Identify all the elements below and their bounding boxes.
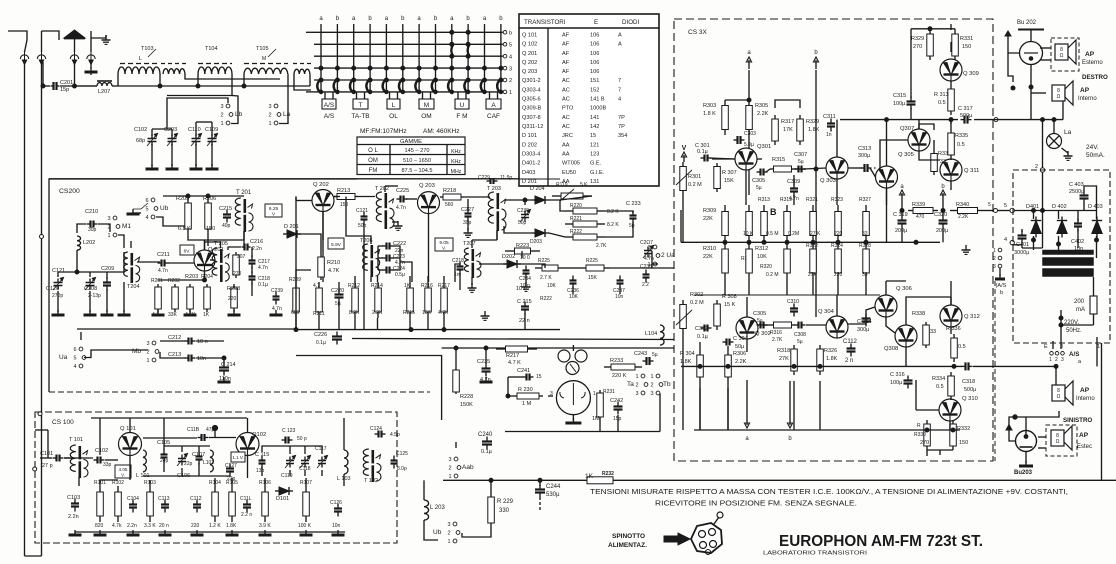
wire bu202 down bbox=[1030, 65, 1032, 120]
wire t205 top bbox=[205, 242, 221, 248]
svg-text:TRANSISTORI: TRANSISTORI bbox=[524, 19, 566, 26]
svg-text:3: 3 bbox=[1061, 357, 1064, 363]
wire bottom rails bbox=[25, 555, 42, 557]
plug connector P1 bbox=[20, 51, 28, 65]
capacitor C113 bbox=[161, 500, 169, 513]
svg-text:a: a bbox=[417, 16, 421, 22]
svg-text:3: 3 bbox=[993, 264, 996, 270]
wire output rail bbox=[840, 119, 958, 121]
svg-text:Q 102: Q 102 bbox=[522, 42, 537, 48]
svg-text:27K: 27K bbox=[779, 356, 789, 362]
svg-text:2.2 n: 2.2 n bbox=[241, 512, 252, 518]
svg-text:Aab: Aab bbox=[462, 464, 474, 471]
svg-text:1: 1 bbox=[650, 374, 653, 380]
capacitor C123 bbox=[282, 437, 293, 444]
svg-text:OL: OL bbox=[389, 113, 398, 120]
resistor R331 150 bbox=[952, 30, 959, 60]
svg-text:Q 310: Q 310 bbox=[962, 396, 978, 402]
transformer T204 oscillator coil bbox=[124, 252, 140, 283]
svg-text:R222: R222 bbox=[540, 296, 552, 302]
wire supply top cs3x bbox=[748, 135, 750, 148]
switch Mb bbox=[146, 341, 158, 364]
svg-text:C2Ω7: C2Ω7 bbox=[640, 240, 653, 246]
svg-text:AF: AF bbox=[562, 69, 570, 75]
wire r218 t203 bbox=[464, 196, 490, 198]
svg-text:G.E.: G.E. bbox=[590, 161, 602, 167]
svg-text:C311: C311 bbox=[823, 114, 836, 120]
wire bottom long bbox=[443, 479, 560, 481]
diode D201 AM det bbox=[283, 230, 301, 238]
ground symbol top bbox=[102, 35, 111, 44]
wire c402 bbox=[1077, 211, 1079, 221]
resistor R316 2.7K bbox=[770, 322, 795, 328]
svg-text:1.8 K: 1.8 K bbox=[703, 111, 716, 117]
capacitor C212 bbox=[185, 338, 196, 345]
input V left bbox=[681, 152, 686, 162]
svg-text:AC: AC bbox=[562, 78, 570, 84]
wire M1 bbox=[118, 235, 124, 248]
svg-text:510 – 1650: 510 – 1650 bbox=[403, 158, 431, 164]
svg-text:R 230: R 230 bbox=[518, 387, 533, 393]
svg-text:R: R bbox=[917, 423, 921, 429]
capacitor C306 5u bbox=[757, 322, 768, 329]
svg-text:22K: 22K bbox=[703, 216, 713, 222]
capacitor C304 50u bbox=[723, 339, 734, 346]
capacitor C308 5u bbox=[795, 322, 806, 329]
ground stub CS100 x165 bbox=[159, 530, 172, 535]
plug connector P2 bbox=[37, 51, 45, 65]
inductor L202 bbox=[77, 236, 81, 250]
svg-text:207: 207 bbox=[237, 254, 246, 260]
svg-text:T207: T207 bbox=[463, 241, 476, 247]
wire c101 bbox=[40, 457, 52, 459]
wire q310 up bbox=[949, 398, 951, 400]
svg-text:2.2K: 2.2K bbox=[372, 310, 383, 316]
wire coil taps bbox=[159, 74, 161, 86]
ground stub CS100 x265 bbox=[259, 530, 272, 535]
wire bu202 hook bbox=[1008, 53, 1013, 82]
svg-text:7P: 7P bbox=[618, 124, 625, 130]
switch Ua bottom bbox=[73, 347, 85, 370]
resistor R201 bbox=[155, 284, 162, 312]
svg-text:T 202: T 202 bbox=[375, 186, 389, 192]
svg-text:4.7k: 4.7k bbox=[112, 523, 122, 529]
resistor R335 0.5 bbox=[948, 128, 955, 160]
wire psu feed bbox=[998, 210, 1011, 212]
svg-text:C226: C226 bbox=[314, 332, 327, 338]
svg-text:220: 220 bbox=[834, 272, 843, 278]
svg-text:CS 100: CS 100 bbox=[52, 419, 74, 426]
svg-text:Q 312: Q 312 bbox=[964, 314, 980, 320]
svg-text:AC: AC bbox=[562, 124, 570, 130]
svg-text:1: 1 bbox=[1049, 357, 1052, 363]
svg-text:D303-4: D303-4 bbox=[522, 152, 540, 158]
svg-text:1K: 1K bbox=[585, 473, 594, 480]
svg-text:1.8K: 1.8K bbox=[680, 359, 692, 365]
wire CS100 mid bbox=[64, 457, 93, 459]
svg-text:R312: R312 bbox=[755, 246, 768, 252]
svg-text:1.8K: 1.8K bbox=[226, 523, 237, 529]
svg-text:a: a bbox=[385, 16, 389, 22]
svg-text:0.5: 0.5 bbox=[938, 100, 946, 106]
speaker AP interno sinistro bbox=[1052, 381, 1073, 405]
svg-text:R208: R208 bbox=[227, 286, 240, 292]
node 4 bbox=[1010, 240, 1014, 244]
svg-text:150: 150 bbox=[959, 440, 968, 446]
svg-text:Bu 202: Bu 202 bbox=[1017, 20, 1037, 26]
capacitor C222 bbox=[383, 243, 394, 250]
resistor R328 33 bbox=[863, 242, 870, 280]
resistor R220 bbox=[565, 208, 605, 214]
wire c203 bbox=[171, 129, 173, 136]
wire matrix feed bbox=[167, 98, 228, 129]
svg-text:C102: C102 bbox=[134, 127, 147, 133]
wire c313 q305 b bbox=[870, 168, 876, 177]
svg-text:152: 152 bbox=[590, 87, 599, 93]
wire rail119 node circle bbox=[994, 118, 998, 122]
svg-text:15K: 15K bbox=[724, 178, 734, 184]
svg-text:123: 123 bbox=[590, 152, 599, 158]
wire r340 out bbox=[985, 210, 993, 212]
resistor R101 bbox=[97, 486, 104, 522]
svg-text:R218: R218 bbox=[443, 188, 456, 194]
inductor L203 bbox=[424, 500, 429, 520]
svg-text:L 203: L 203 bbox=[430, 505, 445, 511]
svg-text:C308: C308 bbox=[794, 332, 806, 338]
capacitor C238 bbox=[643, 270, 650, 283]
svg-text:4: 4 bbox=[145, 215, 148, 221]
wire r206 bottom bbox=[207, 236, 209, 246]
capacitor C120 variable bbox=[53, 278, 64, 291]
fuse 200mA bbox=[1090, 296, 1097, 314]
ground CS3X mid bbox=[962, 245, 971, 254]
wire c315 bbox=[910, 29, 912, 98]
svg-text:L202: L202 bbox=[83, 240, 95, 246]
resistor R212x bbox=[293, 282, 300, 318]
svg-text:R334: R334 bbox=[932, 376, 945, 382]
resistor R308 15K bbox=[714, 300, 721, 330]
svg-text:2.2K: 2.2K bbox=[958, 214, 969, 220]
wire c244 bbox=[539, 480, 541, 486]
svg-text:R328: R328 bbox=[859, 243, 871, 249]
svg-text:3.9 K: 3.9 K bbox=[259, 523, 271, 529]
resistor R217 47K bbox=[496, 346, 537, 352]
svg-text:11.5p: 11.5p bbox=[500, 175, 512, 181]
wire c120 top link bbox=[58, 271, 77, 273]
transistor Q311 bbox=[940, 159, 962, 181]
resistor R302 0.2M pot bbox=[680, 300, 687, 333]
wire r229 bbox=[490, 480, 492, 490]
inductor L104 bbox=[660, 325, 664, 345]
wire socket top bbox=[572, 345, 574, 351]
svg-text:C126: C126 bbox=[330, 500, 342, 506]
svg-text:15: 15 bbox=[536, 374, 542, 380]
wire c109 bbox=[211, 122, 213, 136]
transistor Q309 bbox=[940, 59, 962, 81]
resistor R204 bbox=[204, 284, 211, 312]
resistor R102 bbox=[115, 486, 122, 522]
wire c209 top bbox=[77, 271, 107, 273]
svg-text:5µ: 5µ bbox=[756, 185, 762, 191]
wire cs3x lower drops bbox=[699, 388, 701, 430]
capacitor C218 bbox=[249, 272, 256, 285]
svg-text:33p: 33p bbox=[103, 462, 112, 468]
svg-text:R221: R221 bbox=[570, 216, 582, 222]
svg-text:10n: 10n bbox=[332, 523, 341, 529]
wire bu203 top2 bbox=[1025, 417, 1027, 424]
svg-text:2.7K: 2.7K bbox=[772, 337, 783, 343]
svg-text:C125: C125 bbox=[396, 451, 408, 457]
svg-text:15K: 15K bbox=[588, 275, 598, 281]
wire t207 top bbox=[471, 240, 473, 248]
input a upper bbox=[746, 57, 751, 69]
svg-text:24V.: 24V. bbox=[1086, 144, 1099, 151]
svg-text:2: 2 bbox=[635, 383, 638, 389]
svg-text:C209: C209 bbox=[101, 266, 114, 272]
svg-text:DESTRO: DESTRO bbox=[1082, 74, 1108, 81]
svg-text:A: A bbox=[618, 42, 622, 48]
resistor R339 470 bbox=[908, 208, 938, 214]
svg-text:Q301-2: Q301-2 bbox=[522, 78, 541, 84]
wire transformer taps bbox=[1096, 250, 1098, 258]
capacitor C210 series bbox=[87, 221, 98, 228]
svg-text:1K: 1K bbox=[203, 312, 210, 318]
svg-text:R339: R339 bbox=[912, 202, 925, 208]
svg-text:CS200: CS200 bbox=[59, 188, 80, 195]
svg-text:3: 3 bbox=[268, 104, 271, 110]
svg-text:27 K: 27 K bbox=[810, 231, 821, 237]
svg-text:8.2K: 8.2K bbox=[349, 310, 360, 316]
svg-text:2: 2 bbox=[447, 531, 450, 537]
svg-text:V.: V. bbox=[442, 246, 446, 251]
wire out rail 2 bbox=[973, 365, 1056, 367]
svg-text:8.0p: 8.0p bbox=[397, 466, 407, 472]
wire main supply rail y178 bbox=[49, 178, 519, 180]
svg-text:R233: R233 bbox=[610, 358, 623, 364]
wire r317 r329 tops bbox=[775, 100, 800, 108]
svg-text:1: 1 bbox=[635, 374, 638, 380]
transistor Q202 IF amp bbox=[312, 190, 334, 212]
svg-text:C121: C121 bbox=[356, 208, 368, 214]
svg-text:C211: C211 bbox=[157, 252, 170, 258]
wire T201 gnd bbox=[243, 231, 245, 240]
wire c212 c213 right bbox=[196, 340, 224, 342]
svg-text:R313: R313 bbox=[758, 197, 770, 203]
svg-text:SINISTRO: SINISTRO bbox=[1063, 417, 1092, 424]
svg-text:R324: R324 bbox=[831, 243, 843, 249]
svg-text:R 304: R 304 bbox=[680, 351, 695, 357]
svg-text:4.7K: 4.7K bbox=[438, 310, 449, 316]
wire t203 sec down bbox=[496, 230, 498, 240]
resistor R323 220 bbox=[835, 205, 842, 242]
wire psu 220v bbox=[1060, 310, 1062, 322]
wire lower q302 q304 bbox=[758, 324, 770, 326]
svg-text:C302: C302 bbox=[695, 326, 708, 332]
svg-text:2.2n: 2.2n bbox=[127, 523, 137, 529]
svg-text:1.1 V.: 1.1 V. bbox=[232, 455, 243, 460]
capacitor C243 5u bbox=[643, 357, 654, 365]
svg-text:Ta: Ta bbox=[627, 381, 634, 388]
wire rail 1 top bbox=[25, 40, 28, 52]
wire cs100 t101 bbox=[78, 477, 80, 486]
transformer T206 bbox=[363, 244, 380, 277]
resistor R309 22K bbox=[722, 205, 729, 242]
svg-text:7: 7 bbox=[618, 87, 621, 93]
resistor R305 bbox=[746, 100, 753, 135]
svg-text:2: 2 bbox=[268, 113, 271, 119]
svg-text:L104: L104 bbox=[645, 331, 657, 337]
wire r330 r332 bottom bbox=[926, 450, 928, 456]
capacitor C216 bbox=[242, 244, 251, 251]
resistor R324 220 bbox=[835, 242, 842, 280]
svg-text:b: b bbox=[401, 16, 405, 22]
svg-text:4: 4 bbox=[1004, 237, 1007, 243]
T103 secondary winding bbox=[163, 69, 185, 74]
wire q312 collector top bbox=[950, 281, 952, 305]
svg-text:1.2 K: 1.2 K bbox=[209, 523, 221, 529]
wire Ub right bbox=[156, 217, 187, 226]
svg-text:R326: R326 bbox=[824, 348, 837, 354]
wire r334 down bbox=[950, 399, 952, 400]
transformer T203 bbox=[488, 192, 506, 231]
svg-text:0.2 M: 0.2 M bbox=[690, 300, 704, 306]
wire r303 top bbox=[725, 99, 749, 101]
wire rail 1 bbox=[24, 62, 26, 556]
svg-text:0.5: 0.5 bbox=[958, 344, 966, 350]
svg-text:4.5p: 4.5p bbox=[390, 432, 400, 438]
svg-text:300µ: 300µ bbox=[857, 327, 870, 333]
svg-text:D 402: D 402 bbox=[1052, 204, 1067, 210]
wire q102 collector bbox=[247, 418, 249, 432]
wire bu202 left bbox=[1008, 36, 1020, 53]
svg-text:R329: R329 bbox=[911, 36, 924, 42]
svg-text:R228: R228 bbox=[460, 394, 473, 400]
diode D203 bbox=[531, 229, 549, 237]
svg-text:15: 15 bbox=[590, 133, 596, 139]
svg-text:R222: R222 bbox=[570, 229, 582, 235]
wire c319 c320 bottoms bbox=[901, 228, 903, 242]
svg-text:R225: R225 bbox=[538, 258, 550, 264]
transistor Q101 RF amp bbox=[119, 433, 142, 456]
svg-text:DIODI: DIODI bbox=[622, 19, 639, 26]
capacitor C240 bbox=[482, 437, 492, 450]
svg-text:1M: 1M bbox=[592, 416, 600, 422]
resistor R319 0.2M bbox=[784, 205, 791, 242]
wire gnd stub bbox=[90, 62, 92, 68]
svg-text:D101: D101 bbox=[276, 496, 289, 502]
svg-text:E: E bbox=[594, 19, 598, 26]
svg-text:O L: O L bbox=[368, 148, 378, 154]
svg-text:2: 2 bbox=[650, 383, 653, 389]
transistor Q310 bbox=[939, 399, 961, 421]
resistor R307 15K bbox=[714, 163, 721, 192]
ground C209 bbox=[101, 310, 114, 315]
svg-text:La: La bbox=[283, 111, 291, 118]
ground stub CS100 x306 bbox=[300, 530, 313, 535]
ground C109 bbox=[206, 164, 219, 169]
capacitor C127 bbox=[226, 464, 234, 477]
svg-text:R202: R202 bbox=[168, 278, 180, 284]
voltage box 1.1V bbox=[231, 452, 245, 462]
svg-text:EUROPHON AM-FM 723t ST.: EUROPHON AM-FM 723t ST. bbox=[779, 533, 983, 550]
wire cs3x bottom bus bbox=[694, 429, 960, 431]
svg-text:106: 106 bbox=[590, 51, 599, 57]
arrow a mid bbox=[899, 190, 904, 200]
resistor R232 1K bbox=[560, 477, 640, 484]
svg-text:G.I.E.: G.I.E. bbox=[590, 170, 605, 176]
ground T207 bbox=[468, 283, 477, 292]
svg-text:10K: 10K bbox=[569, 294, 579, 300]
wire q304 collector bbox=[836, 295, 838, 316]
switch AS contacts bbox=[1050, 352, 1054, 356]
svg-text:141 B: 141 B bbox=[590, 97, 605, 103]
capacitor C104 bbox=[129, 500, 137, 513]
svg-text:C 304: C 304 bbox=[733, 336, 748, 342]
capacitor C213 bbox=[185, 355, 196, 362]
socket Bu201 bbox=[556, 381, 590, 415]
capacitor C215 22n bbox=[521, 302, 529, 315]
transformer T201 IF can bbox=[235, 198, 253, 232]
capacitor C118 trim bbox=[300, 456, 311, 469]
ground T202 sym bbox=[394, 221, 403, 230]
wire T204 bbox=[123, 282, 125, 312]
svg-text:Lb: Lb bbox=[235, 111, 243, 118]
svg-text:0.5 M: 0.5 M bbox=[766, 231, 779, 237]
resistor R322 27K bbox=[810, 242, 817, 280]
svg-text:R201: R201 bbox=[151, 278, 163, 284]
svg-text:15 K: 15 K bbox=[724, 302, 736, 308]
svg-text:C240: C240 bbox=[478, 432, 493, 438]
svg-text:13p: 13p bbox=[256, 468, 265, 474]
wire d204 r220 bbox=[549, 200, 565, 211]
svg-text:C127: C127 bbox=[225, 463, 237, 469]
svg-text:R335: R335 bbox=[955, 133, 968, 139]
wire c313 q305 bbox=[874, 167, 876, 169]
svg-text:1 M: 1 M bbox=[522, 401, 532, 407]
socket Bu203 bbox=[1016, 431, 1037, 452]
capacitor C105 bbox=[161, 450, 168, 463]
svg-text:220: 220 bbox=[191, 523, 200, 529]
ground stub CS100 x75 bbox=[69, 530, 82, 535]
capacitor C319 200u bbox=[898, 216, 907, 229]
svg-text:AC: AC bbox=[562, 97, 570, 103]
svg-text:R220: R220 bbox=[570, 203, 582, 209]
svg-text:U: U bbox=[460, 102, 465, 109]
svg-text:C102: C102 bbox=[95, 448, 108, 454]
svg-text:GAMME: GAMME bbox=[400, 139, 422, 145]
resistor R321 27K bbox=[810, 205, 817, 242]
capacitor C112b bbox=[193, 500, 201, 513]
wire t203 d203 bbox=[504, 226, 531, 233]
svg-text:a: a bbox=[450, 16, 454, 22]
resistor R211 bbox=[316, 282, 323, 318]
resistor R202 bbox=[172, 284, 179, 312]
svg-text:33: 33 bbox=[930, 329, 936, 335]
capacitor C214 bbox=[219, 363, 229, 376]
resistor R303 bbox=[722, 100, 729, 135]
node CS100 corner bbox=[38, 412, 42, 416]
svg-text:40p: 40p bbox=[222, 223, 231, 229]
matrix stub left bbox=[306, 31, 314, 33]
wire under coils bbox=[75, 85, 98, 87]
svg-text:C 319: C 319 bbox=[893, 212, 908, 218]
inductor L101 bbox=[143, 450, 146, 472]
wire cs100 row links bbox=[100, 480, 118, 486]
svg-text:0.5µ: 0.5µ bbox=[395, 272, 405, 278]
svg-text:C310: C310 bbox=[787, 299, 799, 305]
svg-text:560: 560 bbox=[445, 202, 454, 208]
capacitor C309 bbox=[790, 184, 798, 197]
